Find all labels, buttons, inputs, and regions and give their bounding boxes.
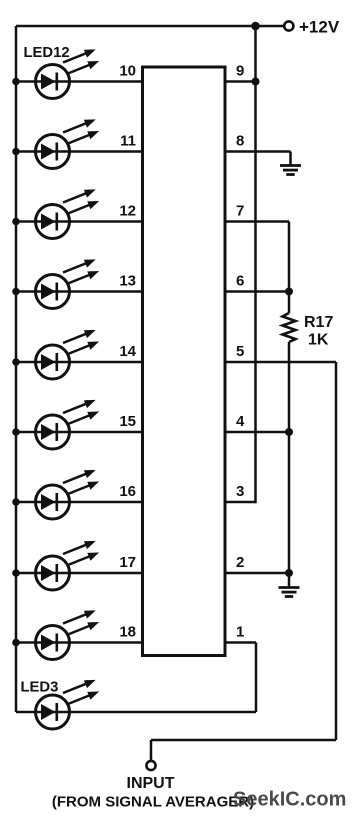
svg-text:7: 7 (236, 203, 244, 220)
svg-text:SeekIC.com: SeekIC.com (233, 789, 346, 811)
svg-text:(FROM SIGNAL AVERAGER): (FROM SIGNAL AVERAGER) (52, 794, 254, 811)
svg-text:1K: 1K (308, 332, 329, 349)
svg-text:6: 6 (236, 273, 244, 290)
svg-text:8: 8 (236, 133, 244, 150)
svg-text:LED3: LED3 (21, 680, 59, 696)
svg-text:LED12: LED12 (24, 45, 70, 61)
svg-text:2: 2 (236, 554, 244, 571)
svg-text:5: 5 (236, 343, 244, 360)
svg-text:9: 9 (236, 63, 244, 80)
svg-text:3: 3 (236, 483, 244, 500)
svg-text:12: 12 (119, 203, 136, 220)
svg-text:1: 1 (236, 624, 244, 641)
svg-text:15: 15 (119, 413, 136, 430)
svg-text:R17: R17 (304, 314, 333, 331)
svg-text:17: 17 (119, 554, 136, 571)
svg-text:18: 18 (119, 624, 136, 641)
svg-text:4: 4 (236, 413, 245, 430)
svg-text:+12V: +12V (299, 18, 340, 37)
svg-text:11: 11 (120, 133, 136, 150)
svg-text:14: 14 (119, 343, 136, 360)
svg-text:13: 13 (119, 273, 136, 290)
svg-text:10: 10 (119, 63, 136, 80)
svg-text:16: 16 (119, 483, 136, 500)
svg-text:INPUT: INPUT (127, 775, 175, 792)
